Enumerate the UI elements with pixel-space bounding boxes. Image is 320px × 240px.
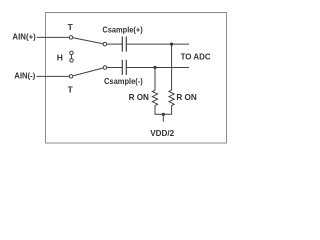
wire switch T(-) arm [71, 68, 105, 77]
switch H (hold) [70, 51, 74, 62]
wire bottom node to resistor R ON (left) [154, 68, 156, 91]
svg-text:TO ADC: TO ADC [181, 51, 211, 61]
wire AIN(-) lead [37, 75, 72, 77]
svg-text:VDD/2: VDD/2 [150, 128, 174, 138]
svg-text:H: H [57, 53, 63, 63]
wire Csample(-) to ADC [126, 67, 189, 69]
junction VDD/2 node [162, 113, 165, 116]
resistor R ON (left) [152, 90, 157, 105]
wire to Csample(-) [107, 67, 123, 69]
wire Csample(+) to ADC [126, 43, 189, 45]
svg-text:T: T [68, 22, 74, 32]
switch T(-) contact circle left [69, 75, 73, 79]
capacitor Csample(+) [122, 37, 126, 52]
wire stub to VDD/2 [162, 114, 164, 122]
wire to Csample(+) [107, 43, 123, 45]
svg-text:Csample(+): Csample(+) [102, 25, 142, 35]
resistor R ON (right) [169, 90, 174, 105]
switch T(-) contact circle right [103, 66, 107, 70]
svg-text:R ON: R ON [129, 92, 149, 102]
junction bottom node [153, 66, 156, 69]
wire switch T(+) arm [71, 37, 105, 44]
junction top node [170, 43, 173, 46]
wire AIN(+) lead [37, 36, 71, 38]
switch T(+) contact circle right [103, 42, 107, 46]
wire resistor bottoms join [155, 106, 172, 115]
svg-text:T: T [68, 85, 74, 95]
svg-text:R ON: R ON [176, 92, 196, 102]
svg-text:AIN(+): AIN(+) [12, 32, 36, 42]
capacitor Csample(-) [122, 60, 126, 75]
svg-text:Csample(-): Csample(-) [104, 76, 143, 86]
svg-text:AIN(-): AIN(-) [14, 71, 35, 81]
switch T(+) contact circle left [69, 36, 73, 40]
enclosure box [46, 13, 227, 144]
wire top node to resistor R ON (right) [171, 44, 173, 90]
